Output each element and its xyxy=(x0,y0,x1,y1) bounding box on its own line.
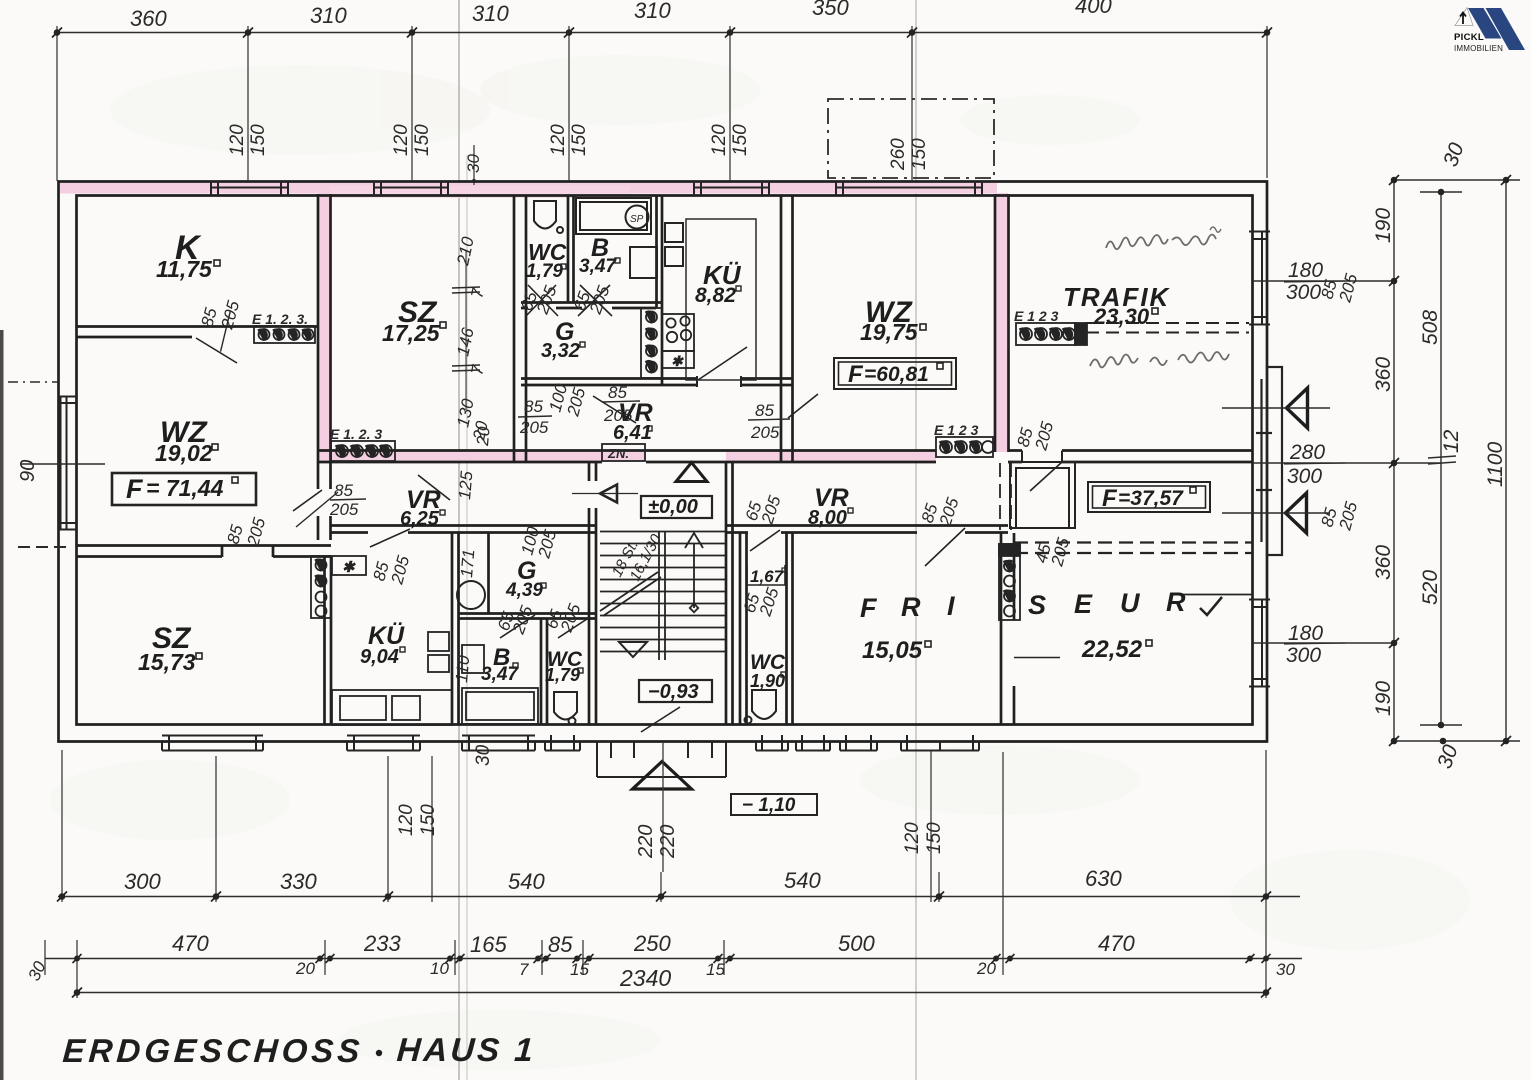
svg-text:180: 180 xyxy=(1288,259,1323,282)
scan fold line vertical 2 xyxy=(915,0,917,1080)
svg-text:190: 190 xyxy=(1372,208,1395,243)
svg-text:205: 205 xyxy=(519,418,549,437)
VR625 left wall (V1 extension) xyxy=(317,462,320,489)
svg-text:85: 85 xyxy=(334,481,353,500)
right 180/300 fraction labels xyxy=(1286,259,1325,667)
svg-text:540: 540 xyxy=(784,868,821,893)
svg-text:85: 85 xyxy=(548,932,573,957)
chain A xyxy=(1393,180,1395,741)
svg-text:110: 110 xyxy=(452,654,473,683)
sill window bottom WC179 xyxy=(545,735,580,751)
chimney box below TRAFIK wall xyxy=(1010,462,1075,528)
interior wall V4 (B right / KUE left) xyxy=(655,195,658,308)
svg-text:10: 10 xyxy=(430,959,449,978)
bathtub B top xyxy=(576,198,651,234)
svg-text:171: 171 xyxy=(457,548,478,578)
window top wall KUE xyxy=(694,181,769,196)
logo arrow xyxy=(1460,13,1466,25)
interior wall H6 (VR625 bottom) xyxy=(331,524,596,527)
interior wall V5 (KUE right) xyxy=(780,195,783,462)
svg-text:540: 540 xyxy=(508,869,545,894)
dashed box above WZ (terrace) xyxy=(828,99,994,178)
svg-text:6,25: 6,25 xyxy=(400,508,440,530)
sill window bottom B347 xyxy=(462,735,535,751)
E123 box H4 left xyxy=(331,441,395,461)
door slash KUE904 xyxy=(370,529,410,547)
door slash WC190 top xyxy=(750,530,780,551)
svg-text:15: 15 xyxy=(570,960,589,979)
svg-text:15,73: 15,73 xyxy=(138,649,196,675)
svg-text:7: 7 xyxy=(519,960,529,979)
door X slash WC top xyxy=(526,285,556,316)
svg-text:90: 90 xyxy=(17,460,39,482)
window dim connectors xyxy=(1253,280,1394,282)
dashed line left edge upper xyxy=(8,381,58,383)
B/WC bottom divider V10 xyxy=(540,618,543,725)
svg-text:260: 260 xyxy=(888,138,909,171)
svg-text:470: 470 xyxy=(1098,931,1135,956)
door slash WZ1902 side xyxy=(293,490,322,511)
svg-text:150: 150 xyxy=(924,822,945,854)
top dimension chain line xyxy=(57,26,1267,181)
svg-text:280: 280 xyxy=(1289,441,1325,464)
KUE904 E strip xyxy=(311,556,331,618)
bottom dimension chains xyxy=(45,750,1302,998)
stair mid rails xyxy=(658,531,660,660)
svg-text:205: 205 xyxy=(329,500,359,519)
svg-text:360: 360 xyxy=(130,6,167,31)
svg-text:360: 360 xyxy=(1372,357,1395,392)
fridge squares KUE top xyxy=(665,223,683,266)
dashed lines in TRAFIK xyxy=(1086,323,1249,333)
extension lines bottom xyxy=(61,750,63,902)
svg-text:E 1 2 3: E 1 2 3 xyxy=(1014,308,1059,324)
svg-text:1,79: 1,79 xyxy=(526,261,563,282)
KUE904 right wall V9 xyxy=(451,532,454,725)
svg-text:±0,00: ±0,00 xyxy=(648,496,698,518)
svg-text:=37,57: =37,57 xyxy=(1118,487,1184,510)
svg-text:9,04: 9,04 xyxy=(360,646,399,668)
svg-text:120: 120 xyxy=(709,124,730,156)
right wall window lower xyxy=(1249,600,1270,687)
svg-text:1,67: 1,67 xyxy=(750,567,785,586)
svg-text:120: 120 xyxy=(391,124,412,156)
svg-text:85: 85 xyxy=(755,401,774,420)
interior wall H1 (K|WZ divider) xyxy=(76,325,317,328)
interior wall V2 (SZ right) xyxy=(513,195,516,462)
120/150 pairs below building xyxy=(396,744,945,854)
stair direction arrow up flight xyxy=(685,533,703,612)
hall small door triangle xyxy=(600,485,617,503)
inner face of outer wall xyxy=(77,196,1253,725)
G439 left wall V11 xyxy=(487,532,490,614)
svg-text:−0,93: −0,93 xyxy=(648,681,699,703)
right chain ticks xyxy=(1389,175,1511,746)
right wall door triangle 2 xyxy=(1286,493,1307,533)
box plusminus 0,00 xyxy=(641,496,712,518)
right wall bay xyxy=(1256,367,1282,555)
box F=60,81 xyxy=(834,358,956,389)
door slash below -093 xyxy=(641,707,680,732)
right dimension chains xyxy=(1253,180,1520,741)
E123 box TRAFIK with black block xyxy=(1016,323,1087,345)
stair hall right wall V8 xyxy=(725,462,728,725)
interior wall H3 (below G and KUE) xyxy=(521,377,793,380)
entrance platform and steps xyxy=(597,742,726,777)
KUE904 stove box xyxy=(332,556,366,575)
svg-text:2340: 2340 xyxy=(619,965,671,991)
box F=37,57 xyxy=(1088,482,1210,512)
svg-text:S: S xyxy=(1028,590,1046,620)
svg-text:120: 120 xyxy=(396,804,417,836)
chain3 xyxy=(72,988,1271,998)
pink highlighted wall: vertical between K/WZ and SZ xyxy=(319,193,331,462)
svg-text:190: 190 xyxy=(1372,681,1395,716)
svg-text:SP: SP xyxy=(630,214,644,225)
right chain labels rotated xyxy=(1372,140,1507,772)
interior wall H2 (below WC/B) xyxy=(521,301,662,304)
svg-text:310: 310 xyxy=(472,1,509,26)
svg-text:F: F xyxy=(860,593,878,623)
svg-text:220: 220 xyxy=(635,825,657,859)
svg-text:120: 120 xyxy=(227,124,248,156)
box ZN xyxy=(602,444,645,461)
svg-text:E 1 2 3: E 1 2 3 xyxy=(934,422,979,438)
window top wall SZ xyxy=(374,181,448,196)
interior wall H5 (WZ|SZ left divider) xyxy=(76,544,331,547)
right wall door triangle 1 xyxy=(1287,388,1308,428)
sill window bottom SZ1573 xyxy=(162,735,263,751)
svg-text:360: 360 xyxy=(1372,545,1395,580)
svg-text:30: 30 xyxy=(1276,960,1295,979)
svg-text:I: I xyxy=(947,591,955,621)
door slash VR641 xyxy=(593,396,636,423)
svg-text:330: 330 xyxy=(280,869,317,894)
SP boiler circle xyxy=(626,206,649,229)
svg-text:205: 205 xyxy=(750,423,780,442)
door slash K/WZ xyxy=(196,338,237,363)
svg-text:150: 150 xyxy=(730,124,751,156)
interior wall V3 (WC|B top) xyxy=(567,195,570,303)
svg-text:20: 20 xyxy=(473,425,494,447)
pink highlighted wall: top outer wall band xyxy=(60,183,997,194)
svg-text:1100: 1100 xyxy=(1484,442,1507,487)
SZ column wall ticks xyxy=(452,250,480,410)
interior wall V6 pink (WZ|TRAFIK) xyxy=(994,194,997,452)
svg-text:350: 350 xyxy=(812,0,849,20)
stair treads xyxy=(600,532,726,652)
outer wall outline xyxy=(59,182,1268,742)
extension lines top xyxy=(56,26,58,181)
svg-text:125: 125 xyxy=(455,470,476,500)
logo stripe 1 xyxy=(1468,8,1502,39)
svg-text:508: 508 xyxy=(1419,310,1442,345)
svg-text:HAUS 1: HAUS 1 xyxy=(396,1032,538,1069)
wall H9 (TRAFIK bottom) xyxy=(1008,449,1253,452)
svg-text:6,41: 6,41 xyxy=(613,422,652,444)
door X slash B top xyxy=(578,285,610,316)
door slash TRAFIK xyxy=(1030,462,1062,491)
svg-text:233: 233 xyxy=(363,931,401,956)
svg-text:3,32: 3,32 xyxy=(541,340,580,362)
box 1,67 xyxy=(747,565,785,585)
door slash B bottom xyxy=(500,615,535,638)
chain2 ticks xyxy=(73,954,1271,963)
door slash VR800 to FRISEUR xyxy=(925,528,965,566)
FRISEUR divider V14 xyxy=(1000,533,1003,725)
svg-text:F: F xyxy=(848,361,864,388)
svg-text:8,82: 8,82 xyxy=(695,284,736,307)
box F=71,44 xyxy=(112,473,256,505)
svg-text:E 1. 2. 3: E 1. 2. 3 xyxy=(330,426,382,442)
KUE904 left wall xyxy=(323,556,326,725)
sill windows bottom FRISEUR xyxy=(756,735,979,751)
G439 washbasin circle xyxy=(457,581,485,609)
svg-text:300: 300 xyxy=(1286,644,1321,667)
svg-text:IMMOBILIEN: IMMOBILIEN xyxy=(1454,44,1503,53)
svg-text:− 1,10: − 1,10 xyxy=(742,795,796,816)
door gap KUE bottom wall H3 xyxy=(697,376,741,387)
entrance arrow triangle xyxy=(633,762,692,790)
pink highlighted wall: vertical between WZ and TRAFIK xyxy=(996,193,1009,452)
door slash WZ1975 xyxy=(788,394,818,418)
svg-text:30: 30 xyxy=(473,744,494,766)
dashed band across FRISEUR xyxy=(1000,463,1253,553)
svg-text:300: 300 xyxy=(1287,465,1322,488)
svg-text:20: 20 xyxy=(976,959,996,978)
svg-text:310: 310 xyxy=(634,0,671,23)
interior wall V1 pink left line (K|SZ) xyxy=(317,194,320,462)
stair down open triangle xyxy=(619,642,647,657)
svg-text:150: 150 xyxy=(909,138,930,170)
sill window bottom KUE904 xyxy=(347,735,420,751)
220/220 below entrance xyxy=(635,825,679,859)
right wall window upper xyxy=(1249,232,1270,325)
svg-text:19,02: 19,02 xyxy=(155,440,213,466)
svg-text:500: 500 xyxy=(838,931,875,956)
interior wall H8 (VR800 bottom) xyxy=(726,524,1008,527)
scan fold line vertical 1 xyxy=(458,0,460,1080)
svg-text:4,39: 4,39 xyxy=(505,580,543,601)
svg-text:150: 150 xyxy=(569,124,590,156)
svg-text:R: R xyxy=(1166,587,1186,617)
svg-text:300: 300 xyxy=(124,869,161,894)
svg-text:150: 150 xyxy=(418,804,439,836)
svg-text:✱: ✱ xyxy=(342,559,356,576)
B347 bottom bathtub xyxy=(462,688,538,724)
svg-text:470: 470 xyxy=(172,931,209,956)
window top wall WZ1975 xyxy=(836,181,982,196)
svg-text:22,52: 22,52 xyxy=(1081,636,1143,663)
svg-text:F: F xyxy=(126,474,144,504)
svg-text:205: 205 xyxy=(603,406,633,425)
svg-text:ZN.: ZN. xyxy=(607,446,629,461)
toilet WC179 bottom xyxy=(554,692,577,725)
svg-text:20: 20 xyxy=(295,959,315,978)
svg-text:150: 150 xyxy=(248,124,269,156)
E123 box WZ1975 xyxy=(936,437,994,457)
pink highlighted wall: mid horizontal wall xyxy=(318,452,646,462)
top 120/150 rotated pairs xyxy=(227,124,930,171)
entrance center line xyxy=(662,742,664,872)
connectors xyxy=(1394,179,1520,181)
svg-text:1,79: 1,79 xyxy=(545,665,580,685)
entrance door triangle filled xyxy=(676,463,707,482)
svg-text:400: 400 xyxy=(1075,0,1112,18)
svg-text:E: E xyxy=(1074,589,1093,619)
dashed line left edge lower xyxy=(18,546,70,548)
svg-text:165: 165 xyxy=(470,932,507,957)
cooktop KUE top xyxy=(662,314,694,368)
svg-text:120: 120 xyxy=(902,822,923,854)
box -0,93 xyxy=(639,680,712,702)
svg-text:= 71,44: = 71,44 xyxy=(146,475,224,501)
WC190 right wall V13 xyxy=(785,532,788,725)
double tick at 12 xyxy=(1428,456,1456,458)
tick line 90 on left wall xyxy=(20,463,105,465)
B347 bottom washbasin xyxy=(462,645,484,673)
toilet WC top xyxy=(534,201,563,233)
logo stripe 2 xyxy=(1486,8,1526,50)
chain1 ticks xyxy=(57,892,1271,902)
svg-text:150: 150 xyxy=(412,124,433,156)
svg-text:85: 85 xyxy=(608,383,627,402)
svg-text:520: 520 xyxy=(1419,570,1442,605)
svg-text:85: 85 xyxy=(524,397,543,416)
svg-text:8,00: 8,00 xyxy=(808,507,847,529)
KUE904 sink counter xyxy=(332,690,452,725)
stair hall left wall V7 xyxy=(588,462,591,481)
svg-text:19,75: 19,75 xyxy=(860,319,919,345)
stair diagonal break lines xyxy=(600,572,658,611)
WC190 left wall V12 xyxy=(739,532,742,725)
G washbasin circle (top apartment near E strip) xyxy=(657,335,659,337)
KUE904 fridge squares xyxy=(428,632,449,672)
interior wall H7 (above B/WC bottom) xyxy=(458,612,596,615)
toilet WC190 xyxy=(745,690,777,724)
FRISEUR small wall stub xyxy=(1178,594,1253,596)
svg-text:✱: ✱ xyxy=(671,353,684,369)
svg-text:23,30: 23,30 xyxy=(1093,304,1150,329)
top chain ticks xyxy=(52,28,1272,38)
svg-text:250: 250 xyxy=(633,931,671,956)
FRISEUR 321E strip xyxy=(999,544,1020,620)
svg-text:PICKL: PICKL xyxy=(1454,32,1484,43)
svg-text:15,05: 15,05 xyxy=(862,637,923,664)
door slash KUE top xyxy=(698,347,747,380)
washbasin B top xyxy=(630,247,657,278)
logo roof triangle outline xyxy=(1455,8,1473,26)
window top wall K xyxy=(211,181,288,196)
fraction slashes xyxy=(220,311,790,527)
svg-text:E 1. 2. 3.: E 1. 2. 3. xyxy=(252,311,308,327)
svg-text:ERDGESCHOSS: ERDGESCHOSS xyxy=(61,1033,364,1070)
door gap TRAFIK bottom wall xyxy=(1022,449,1062,464)
chain C xyxy=(1505,180,1507,741)
svg-text:3,47: 3,47 xyxy=(579,256,617,277)
svg-text:12: 12 xyxy=(1440,429,1463,453)
svg-text:1,90: 1,90 xyxy=(750,671,785,691)
door slash WC bottom xyxy=(558,617,590,638)
scan left edge dark bar xyxy=(0,330,4,1080)
E123 box K room xyxy=(254,326,315,343)
svg-text:180: 180 xyxy=(1288,622,1323,645)
svg-text:630: 630 xyxy=(1085,866,1122,891)
svg-text:310: 310 xyxy=(310,3,347,28)
chain B xyxy=(1440,192,1442,725)
box -1,10 xyxy=(731,794,817,815)
window left wall WZ1902 xyxy=(58,397,77,530)
svg-text:300: 300 xyxy=(1286,281,1321,304)
svg-text:120: 120 xyxy=(548,124,569,156)
E strip vertical KUE top xyxy=(641,308,662,378)
KUE inner outline xyxy=(686,219,756,380)
svg-text:17,25: 17,25 xyxy=(382,320,441,346)
svg-text:=60,81: =60,81 xyxy=(864,363,929,386)
svg-text:11,75: 11,75 xyxy=(156,256,213,282)
door slash WZ1902 top xyxy=(418,475,450,500)
svg-text:U: U xyxy=(1120,588,1141,618)
svg-text:220: 220 xyxy=(657,825,679,859)
svg-text:15: 15 xyxy=(706,960,725,979)
svg-text:F: F xyxy=(1102,485,1118,512)
interior wall H4 pink (mid horizontal) xyxy=(318,449,936,452)
interior wall V1 pink right line xyxy=(329,194,332,462)
svg-text:R: R xyxy=(901,592,921,622)
